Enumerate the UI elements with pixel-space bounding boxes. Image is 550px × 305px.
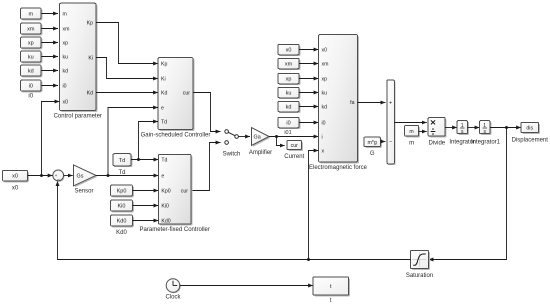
constant xm (EM input) <box>278 58 300 70</box>
wire amplifier to EM force i input <box>269 136 319 138</box>
svg-text:xp: xp <box>322 77 328 83</box>
wire Td to PFC Td input <box>131 159 158 161</box>
wire xp to Control parameter <box>42 42 59 44</box>
svg-text:xm: xm <box>322 62 329 68</box>
wire x0 to Electromagnetic force <box>299 49 319 51</box>
wire Td to GSC Td input <box>139 122 159 160</box>
constant kd <box>21 65 43 77</box>
svg-text:Control parameter: Control parameter <box>54 114 102 120</box>
svg-text:cur: cur <box>291 143 298 149</box>
svg-text:i0: i0 <box>28 94 33 100</box>
constant Ki0 <box>111 200 134 212</box>
svg-text:Kd: Kd <box>161 91 167 97</box>
svg-text:Ki: Ki <box>161 77 166 83</box>
svg-text:Gs: Gs <box>77 174 84 180</box>
wire feedback to saturation <box>429 128 507 260</box>
wire branch to Current scope <box>277 137 285 146</box>
svg-text:ku: ku <box>286 91 292 97</box>
svg-text:e: e <box>161 106 164 112</box>
svg-text:Ki0: Ki0 <box>118 204 126 210</box>
wire divide to integrator <box>445 127 457 129</box>
svg-text:Gain-scheduled Controller: Gain-scheduled Controller <box>141 133 211 139</box>
constant ku (EM input) <box>278 87 300 99</box>
gain Amplifier <box>249 128 272 156</box>
constant m <box>21 8 43 20</box>
svg-text:x: x <box>322 149 325 155</box>
wire i0 to Control parameter <box>42 85 59 87</box>
wire sum to sensor <box>64 175 73 177</box>
svg-text:i01: i01 <box>284 130 291 136</box>
scope Current <box>284 140 304 159</box>
wire PFC cur to switch input 2 <box>191 143 221 191</box>
wire m to Control parameter <box>42 13 59 15</box>
wire ku to Control parameter <box>42 56 59 58</box>
svg-text:Td: Td <box>119 158 125 164</box>
svg-text:Displacement: Displacement <box>512 137 549 143</box>
svg-text:Kp0: Kp0 <box>117 189 127 195</box>
svg-text:ku: ku <box>63 55 69 61</box>
gain Sensor <box>74 165 98 195</box>
svg-text:x0: x0 <box>12 174 18 180</box>
svg-text:kd: kd <box>286 105 292 111</box>
wire i0 to Electromagnetic force <box>299 122 319 124</box>
svg-text:m: m <box>63 12 67 18</box>
svg-text:m*g: m*g <box>368 140 377 146</box>
constant x0 (EM input) <box>278 44 300 56</box>
svg-text:xm: xm <box>27 27 35 33</box>
clock Clock <box>165 279 181 301</box>
wire feedback to EM x input <box>309 151 319 260</box>
wire xm to Electromagnetic force <box>299 63 319 65</box>
svg-text:Ki0: Ki0 <box>161 204 169 210</box>
constant xm <box>21 23 43 35</box>
wire x0 to sum circle <box>28 175 53 177</box>
svg-text:Sensor: Sensor <box>74 189 93 195</box>
svg-text:Integrator1: Integrator1 <box>471 139 501 145</box>
wire Ki <box>96 58 158 79</box>
wire sensor to PFC e input <box>96 175 158 177</box>
divide block Divide <box>428 118 446 147</box>
wire kd to Control parameter <box>42 70 59 72</box>
svg-text:kd: kd <box>63 69 69 75</box>
constant ku <box>21 51 43 63</box>
svg-text:i0: i0 <box>63 84 67 90</box>
wire x0 to Control parameter x0 input <box>42 102 60 176</box>
wire Kd <box>96 92 158 94</box>
svg-text:i0: i0 <box>286 121 290 127</box>
constant i0 (EM input) <box>278 117 300 129</box>
wire fa to sum <box>358 102 386 104</box>
svg-text:x0: x0 <box>322 48 328 54</box>
svg-text:cur: cur <box>181 189 188 195</box>
svg-text:m: m <box>28 12 33 18</box>
wire Kd0 to PFC <box>133 220 159 222</box>
svg-text:xp: xp <box>286 77 292 83</box>
constant xp (EM input) <box>278 73 300 85</box>
svg-text:Ki: Ki <box>88 56 93 62</box>
svg-text:Switch: Switch <box>223 152 241 158</box>
wire switch to amplifier <box>238 136 250 138</box>
svg-text:Ga: Ga <box>254 135 261 141</box>
constant Td <box>113 154 132 177</box>
svg-text:i0: i0 <box>322 121 326 127</box>
switch Switch <box>223 130 241 158</box>
node i01 junction <box>275 135 278 138</box>
svg-text:x0: x0 <box>286 48 292 54</box>
integrator Integrator1 <box>471 121 501 146</box>
node Td junction <box>137 158 140 161</box>
svg-text:fa: fa <box>350 100 354 106</box>
svg-text:kd: kd <box>322 105 328 111</box>
svg-text:Amplifier: Amplifier <box>249 150 272 156</box>
svg-text:m: m <box>409 129 413 135</box>
node x feedback junction <box>307 258 310 261</box>
svg-text:x0: x0 <box>12 186 19 192</box>
svg-text:kd: kd <box>28 69 34 75</box>
svg-text:xm: xm <box>63 27 70 33</box>
sum block <box>387 80 396 165</box>
wire sensor to GSC e input <box>108 108 158 176</box>
svg-text:Kd0: Kd0 <box>116 230 127 236</box>
svg-text:Td: Td <box>161 158 167 164</box>
wire Kp0 to PFC <box>133 190 159 192</box>
constant Kd0 <box>111 215 134 236</box>
wire kd to Electromagnetic force <box>299 106 319 108</box>
svg-text:−: − <box>389 140 392 146</box>
svg-text:−: − <box>57 178 60 183</box>
svg-text:i0: i0 <box>29 84 33 90</box>
scope t <box>313 277 350 304</box>
subsystem Control parameter <box>54 3 102 119</box>
wire sum to divide <box>394 122 427 124</box>
wire xp to Electromagnetic force <box>299 78 319 80</box>
subsystem Gain-scheduled Controller <box>141 58 211 139</box>
svg-text:x0: x0 <box>63 100 69 106</box>
constant x0 (reference) <box>3 170 29 191</box>
svg-text:Kd: Kd <box>87 91 93 97</box>
wire ku to Electromagnetic force <box>299 92 319 94</box>
svg-text:Divide: Divide <box>428 141 445 147</box>
wire clock to t <box>180 285 313 287</box>
svg-text:xp: xp <box>63 41 69 47</box>
constant Kp0 <box>111 185 134 197</box>
svg-text:ku: ku <box>322 91 328 97</box>
svg-text:Parameter-fixed Controller: Parameter-fixed Controller <box>140 227 210 233</box>
integrator Integrator <box>449 121 475 146</box>
svg-text:Td: Td <box>118 170 125 176</box>
svg-text:e: e <box>161 174 164 180</box>
svg-text:cur: cur <box>183 91 190 97</box>
constant m (mass) <box>405 125 420 146</box>
svg-text:Kp: Kp <box>161 62 167 68</box>
svg-text:m: m <box>409 141 414 147</box>
svg-text:Kp0: Kp0 <box>161 189 170 195</box>
wire integrator to integrator1 <box>468 127 480 129</box>
svg-text:Kp: Kp <box>87 21 93 27</box>
svg-text:dis: dis <box>526 126 533 132</box>
node displacement junction <box>505 126 508 129</box>
saturation Saturation <box>406 251 433 280</box>
subsystem Electromagnetic force <box>309 35 368 172</box>
wire xm to Control parameter <box>42 28 59 30</box>
wire integrator1 to dis <box>490 127 521 129</box>
svg-text:t: t <box>330 298 332 304</box>
svg-text:Saturation: Saturation <box>406 273 433 279</box>
constant m*g <box>364 137 382 157</box>
constant kd (EM input) <box>278 101 300 113</box>
wire saturation to sum circle <box>58 181 411 260</box>
sum circle <box>53 170 65 183</box>
node sensor junction <box>107 174 110 177</box>
svg-text:i: i <box>322 135 323 141</box>
svg-text:G: G <box>370 151 375 157</box>
scope dis Displacement <box>512 123 549 144</box>
node x0 junction <box>40 174 43 177</box>
svg-text:xp: xp <box>28 41 34 47</box>
svg-text:Kd0: Kd0 <box>161 219 170 225</box>
svg-text:xm: xm <box>285 62 293 68</box>
constant xp <box>21 37 43 49</box>
constant i0 <box>21 80 43 100</box>
wire m to divide <box>419 131 427 133</box>
svg-text:Td: Td <box>161 120 167 126</box>
svg-text:+: + <box>389 101 392 107</box>
wire GSC cur to switch input 1 <box>193 93 221 132</box>
svg-text:Current: Current <box>284 154 304 160</box>
svg-text:ku: ku <box>28 55 34 61</box>
wire Ki0 to PFC <box>133 205 159 207</box>
wire m*g to sum <box>381 141 386 143</box>
svg-text:Clock: Clock <box>165 295 181 301</box>
svg-text:Electromagnetic force: Electromagnetic force <box>309 165 368 171</box>
subsystem Parameter-fixed Controller <box>140 154 210 233</box>
wire Kp <box>96 23 158 64</box>
svg-text:Kd0: Kd0 <box>117 219 127 225</box>
